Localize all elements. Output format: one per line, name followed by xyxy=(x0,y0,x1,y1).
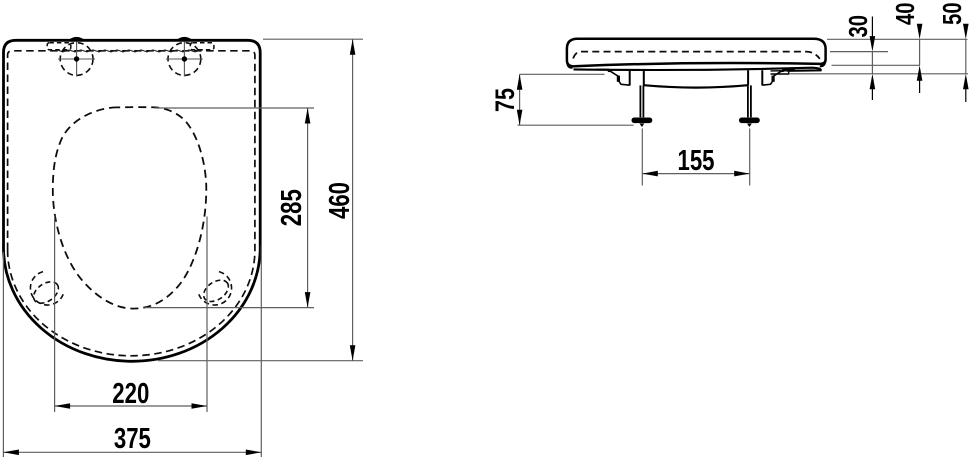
left hinge cap bump xyxy=(67,37,86,41)
dim 75 dimension line xyxy=(517,74,523,125)
height leader C (lid bottom) xyxy=(832,64,921,66)
dim label 30 xyxy=(843,15,873,38)
dim 375 extension line right xyxy=(260,245,262,457)
right bumper (dashed ellipse) xyxy=(200,276,233,306)
dim 155 extension line rear xyxy=(749,129,751,186)
seat underside curve xyxy=(644,85,748,87)
front hinge block xyxy=(630,70,644,85)
dim 75 leader bottom xyxy=(518,124,634,126)
svg-text:155: 155 xyxy=(678,145,715,177)
lid profile outline (side view) xyxy=(567,39,826,68)
dim 155 extension line front xyxy=(641,129,643,186)
right hinge cap bump xyxy=(175,37,194,41)
svg-text:285: 285 xyxy=(276,189,308,226)
svg-text:40: 40 xyxy=(890,3,920,26)
dim label 220 xyxy=(112,378,149,410)
left bumper mount arc (dashed) xyxy=(30,272,63,305)
hinge bar wavy hidden line xyxy=(57,50,201,52)
front fixing bolt with wing nut xyxy=(632,85,653,127)
dim 40 dimension line with outside arrows xyxy=(917,24,923,93)
seat ring hidden outline (dashed inner contour) xyxy=(8,51,255,356)
dim 155 dimension line xyxy=(642,171,749,177)
rear hinge block xyxy=(748,70,762,85)
dim label 75 xyxy=(490,88,520,112)
height leader D (seat bottom) xyxy=(789,73,968,75)
svg-text:220: 220 xyxy=(112,378,149,410)
dim 220 extension line right xyxy=(206,217,208,413)
rear hinge bracket steps xyxy=(762,69,795,85)
rear fixing bolt with wing nut xyxy=(739,85,760,127)
dim 220 extension line left xyxy=(54,216,56,413)
left hinge pivot circle (dashed) with crosshair xyxy=(58,42,95,77)
dim 75 leader top xyxy=(520,73,605,75)
dim 220 dimension line xyxy=(55,403,207,409)
dim 285 dimension line xyxy=(305,108,311,308)
dim 460 leader top xyxy=(263,38,363,40)
lid inner hidden line (dashed) xyxy=(573,52,820,59)
svg-text:30: 30 xyxy=(843,15,873,38)
dim label 285 xyxy=(276,189,308,226)
dim label 40 xyxy=(890,3,920,26)
dim 460 dimension line xyxy=(350,39,356,361)
dim 285 leader top xyxy=(155,107,315,109)
dim 285 leader bottom xyxy=(145,307,315,309)
front hinge bracket steps xyxy=(596,69,630,85)
dim label 50 xyxy=(937,2,967,25)
svg-text:375: 375 xyxy=(114,423,151,455)
right bumper mount arc (dashed) xyxy=(199,272,232,305)
right hinge fixing plate (dashed) xyxy=(190,43,214,50)
dim label 155 xyxy=(678,145,715,177)
seat profile top edge xyxy=(574,68,821,71)
height leader A (lid top) xyxy=(827,38,968,40)
svg-text:50: 50 xyxy=(937,2,967,25)
seat rear bumper tab xyxy=(771,71,789,74)
dim label 460 xyxy=(324,182,356,219)
toilet seat lid outer contour (top view) xyxy=(4,40,261,361)
svg-text:75: 75 xyxy=(490,88,520,112)
left hinge fixing plate (dashed) xyxy=(47,43,71,50)
right hinge pivot circle (dashed) with crosshair xyxy=(166,42,203,77)
dim 375 dimension line xyxy=(3,450,261,456)
dim 375 extension line left xyxy=(2,252,4,457)
height leader B (seat top) xyxy=(830,51,888,53)
dim 30 dimension line with outside arrows xyxy=(870,17,876,101)
dim 50 dimension line with outside arrows xyxy=(963,24,969,102)
dim 460 leader bottom xyxy=(158,360,363,362)
svg-text:460: 460 xyxy=(324,182,356,219)
seat opening hidden outline (dashed oval) xyxy=(53,107,207,308)
dim label 375 xyxy=(114,423,151,455)
left bumper (dashed ellipse) xyxy=(30,277,63,307)
